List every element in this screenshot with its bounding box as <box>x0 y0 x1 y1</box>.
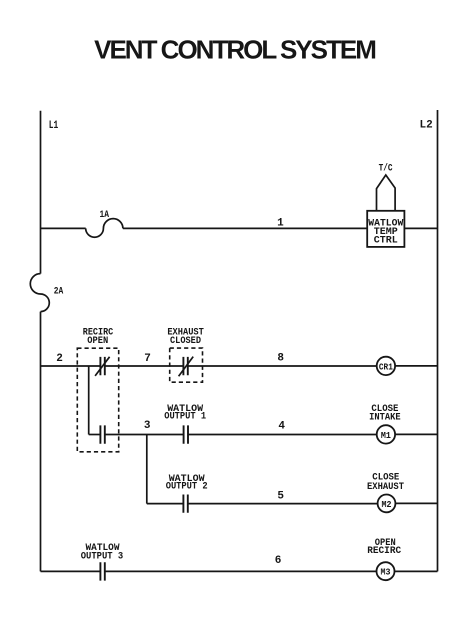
dashed box EXHAUST CLOSED <box>170 348 203 382</box>
wire rung4 seg2 <box>188 503 378 505</box>
coil CR1 <box>377 357 395 375</box>
left rail L1 upper segment <box>40 111 42 274</box>
contact NC recirc-open bars <box>100 357 104 375</box>
wire rung5 seg3 <box>395 570 438 572</box>
branch wire vertical from rung3 to rung4 <box>146 435 148 504</box>
wire rung3 seg4 <box>395 433 437 435</box>
svg-text:OUTPUT 2: OUTPUT 2 <box>166 482 208 493</box>
thermocouple T/C <box>377 175 396 211</box>
wire rung2 seg1 <box>41 365 101 367</box>
controller box WATLOW TEMP CTRL <box>367 211 404 247</box>
svg-text:T/C: T/C <box>379 163 393 175</box>
svg-text:CLOSED: CLOSED <box>170 336 201 347</box>
contact NO watlow-output-1 bars <box>184 425 188 443</box>
wire rung3 seg1 <box>89 434 101 436</box>
svg-text:2A: 2A <box>54 287 64 298</box>
wire rung4 seg1 <box>147 503 184 505</box>
contact NC exhaust-closed bars <box>183 357 187 375</box>
svg-text:OUTPUT 3: OUTPUT 3 <box>81 552 124 563</box>
contact NO watlow-output-2 bars <box>183 495 187 513</box>
svg-text:7: 7 <box>144 353 151 365</box>
contact NO recirc-open bars <box>100 425 104 443</box>
right rail L2 <box>437 110 439 571</box>
wire rung5 seg1 <box>41 570 101 572</box>
svg-text:RECIRC: RECIRC <box>367 546 401 557</box>
svg-text:M2: M2 <box>382 499 392 510</box>
fuse 2A <box>30 274 49 312</box>
svg-text:INTAKE: INTAKE <box>369 413 401 424</box>
svg-text:L2: L2 <box>420 120 433 132</box>
svg-text:6: 6 <box>275 555 282 567</box>
svg-text:OPEN: OPEN <box>87 336 108 347</box>
contact NO watlow-output-3 bars <box>100 562 104 580</box>
contact NC recirc-open slash <box>95 357 110 376</box>
wire rung1 middle <box>123 227 367 229</box>
svg-text:8: 8 <box>277 352 284 364</box>
svg-text:OUTPUT 1: OUTPUT 1 <box>164 412 206 423</box>
contact NC exhaust-closed slash <box>179 357 194 377</box>
svg-text:4: 4 <box>278 420 285 432</box>
wire rung3 seg3 <box>188 434 377 436</box>
svg-text:EXHAUST: EXHAUST <box>367 482 404 493</box>
coil M3 <box>377 562 395 580</box>
svg-text:1A: 1A <box>100 210 110 221</box>
wire rung3 seg2 <box>105 434 184 436</box>
wire rung2 seg4 <box>395 365 437 367</box>
wire rung1 right <box>404 227 437 229</box>
svg-text:CTRL: CTRL <box>374 235 398 246</box>
wire rung1 left <box>41 227 86 229</box>
svg-text:2: 2 <box>56 353 63 365</box>
svg-text:L1: L1 <box>49 120 59 132</box>
svg-text:CR1: CR1 <box>379 361 393 372</box>
wire rung2 seg3 <box>188 365 377 367</box>
left rail L1 lower segment <box>40 312 42 572</box>
wire rung5 seg2 <box>105 570 377 572</box>
wire rung2 seg2 <box>105 365 184 367</box>
svg-text:5: 5 <box>277 490 284 502</box>
svg-text:M1: M1 <box>381 430 391 441</box>
coil M1 <box>377 425 395 443</box>
branch wire vertical from rung2 to rung3 <box>88 366 90 435</box>
coil M2 <box>378 495 396 513</box>
svg-text:VENT CONTROL SYSTEM: VENT CONTROL SYSTEM <box>94 35 375 65</box>
wire rung4 seg3 <box>395 502 437 504</box>
svg-text:M3: M3 <box>381 567 391 578</box>
svg-text:3: 3 <box>144 420 151 432</box>
dashed box RECIRC OPEN <box>77 348 118 452</box>
fuse 1A <box>86 219 123 238</box>
